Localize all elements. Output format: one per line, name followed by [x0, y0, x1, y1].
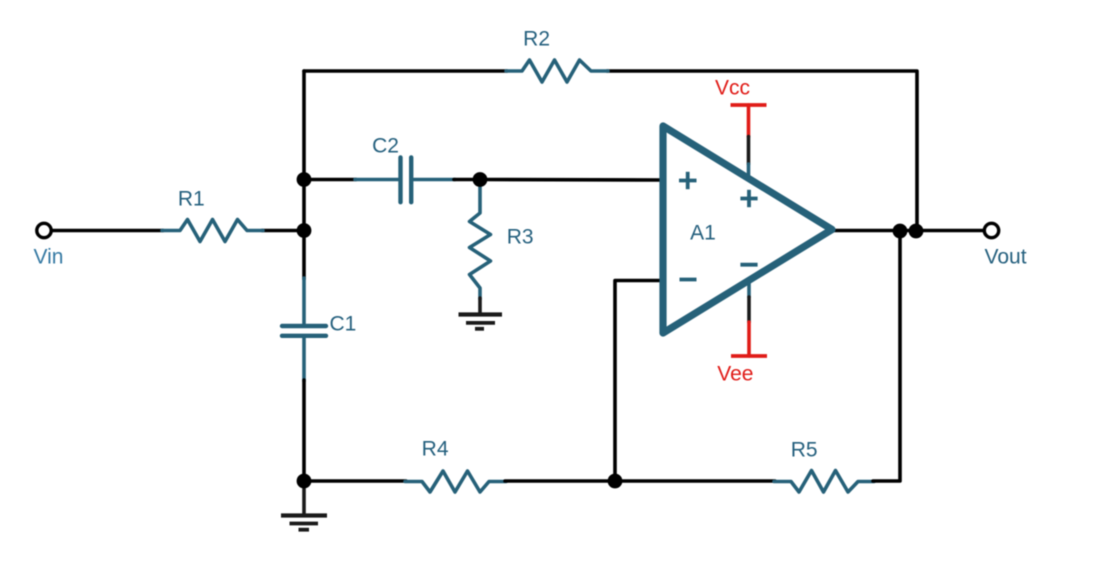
- node B junction dot: [297, 223, 312, 238]
- capacitor C2: [355, 157, 455, 202]
- wire top rail right segment: [607, 71, 917, 231]
- op-amp A1 triangle: [663, 126, 832, 333]
- resistor R1: [162, 220, 263, 242]
- svg-text:Vcc: Vcc: [715, 77, 750, 100]
- wire node E to op-amp - input: [615, 281, 664, 482]
- output junction dot 1: [893, 224, 908, 239]
- svg-text:Vee: Vee: [717, 363, 753, 386]
- svg-text:Vout: Vout: [985, 246, 1027, 269]
- svg-text:R2: R2: [523, 28, 550, 51]
- capacitor C1: [282, 278, 326, 381]
- op-amp V- marker: [740, 263, 757, 267]
- node D junction dot: [297, 474, 312, 489]
- node E junction dot: [608, 474, 623, 489]
- Vcc supply pin: [731, 105, 767, 176]
- wire node A to C2: [304, 178, 356, 182]
- wire R3 to ground: [478, 298, 482, 313]
- terminal Vout: [984, 223, 998, 237]
- wire C2 to node C: [454, 178, 480, 182]
- op-amp output wire: [832, 229, 983, 233]
- wire R1 to node B: [262, 229, 306, 233]
- resistor R2: [506, 60, 608, 82]
- wire node E to R5: [615, 479, 775, 483]
- wire R5 to right rail: [873, 231, 900, 481]
- output junction dot 2: [909, 224, 924, 239]
- op-amp - input marker: [680, 278, 697, 282]
- svg-text:R3: R3: [507, 226, 534, 249]
- wire vertical left branch (node A down through nodes to C1): [302, 71, 306, 279]
- wire R4 to node E: [505, 479, 616, 483]
- svg-text:R5: R5: [791, 439, 818, 462]
- svg-text:R1: R1: [178, 188, 205, 211]
- resistor R4: [405, 471, 506, 492]
- ground under R3: [459, 315, 503, 329]
- op-amp V+ marker: [740, 190, 757, 207]
- svg-text:C2: C2: [372, 135, 399, 158]
- svg-text:R4: R4: [422, 438, 449, 461]
- Vee supply pin: [731, 283, 767, 356]
- op-amp + input marker: [679, 172, 697, 189]
- resistor R3: [470, 187, 491, 299]
- ground under node D: [302, 482, 306, 514]
- wire node D to R4: [304, 479, 406, 483]
- wire Vin to R1: [52, 229, 163, 233]
- terminal Vin: [37, 223, 51, 237]
- svg-text:C1: C1: [330, 313, 357, 336]
- wire C1 to node D: [302, 380, 306, 482]
- svg-text:A1: A1: [690, 222, 716, 245]
- svg-text:Vin: Vin: [34, 246, 64, 269]
- wire node C to op-amp + input: [480, 178, 664, 182]
- resistor R5: [774, 471, 874, 493]
- wire top rail left segment: [304, 69, 507, 73]
- node C junction dot: [473, 172, 488, 187]
- node A junction dot: [297, 172, 312, 187]
